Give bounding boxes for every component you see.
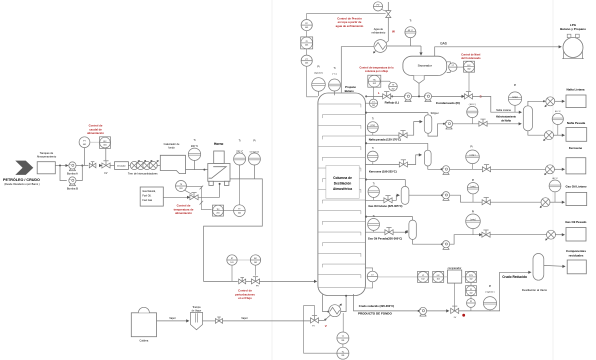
svg-text:Agua de: Agua de — [374, 28, 384, 31]
gauge Ti (C) on column top — [329, 67, 341, 95]
control valve (GOP) — [482, 230, 490, 237]
svg-text:Vapor: Vapor — [241, 317, 248, 320]
svg-text:Control de: Control de — [89, 124, 103, 128]
gauge Pi 0.8 kg/cm2 (furnace outlet) — [248, 140, 260, 179]
gauge Ti (gas oil liviano draw) — [368, 184, 379, 201]
instrument TIC (fondo) — [337, 344, 349, 359]
product box Nafta Pesada — [566, 121, 587, 141]
svg-text:Control de Presión: Control de Presión — [337, 17, 362, 21]
svg-text:(170°): (170°) — [370, 125, 375, 127]
gauge Pi kg/cm2 (crudo reducido) — [483, 285, 496, 311]
control loop label (red): Control de temperatura de alimentacion — [174, 204, 194, 216]
product box Kerosene — [566, 146, 586, 174]
control loop label (red): Control de perturbaciones en el Flujo — [235, 289, 255, 300]
control valve FV (crude feed) — [99, 161, 110, 175]
control valve (kerosene draw) — [399, 160, 407, 167]
wire: stripper3 overhead return — [365, 179, 405, 187]
svg-text:Fuel Gas: Fuel Gas — [142, 199, 153, 202]
svg-text:fondo: fondo — [168, 146, 175, 149]
svg-text:de Nafta: de Nafta — [501, 120, 511, 123]
gauge Pi psig (nafta liviana line) — [508, 84, 521, 112]
svg-text:Hidrotratamiento: Hidrotratamiento — [496, 116, 517, 119]
product box Gas Oil Liviano — [565, 184, 586, 205]
red dot marker — [462, 314, 465, 317]
control valve (GOL draw) — [384, 196, 392, 203]
wire: trap to hand valve — [203, 320, 216, 322]
svg-text:002: 002 — [467, 69, 470, 71]
label Nafta pesada stream — [369, 138, 401, 142]
svg-text:Nafta Pesada: Nafta Pesada — [567, 121, 586, 125]
wire: LT to LY102 — [378, 276, 418, 278]
svg-text:200 °C: 200 °C — [191, 145, 199, 148]
gauge Ti 40C (nafta pesada line) — [467, 104, 478, 124]
wire: stripper4 overhead return — [365, 216, 412, 221]
source arrow PETROLEO/CRUDO (chevron) — [3, 161, 40, 187]
steam valve TV (to reboiler) — [311, 316, 319, 328]
wire: column overhead vapor line — [341, 47, 374, 93]
svg-text:Vapor: Vapor — [169, 317, 176, 320]
wire: kerosene product line — [449, 168, 546, 170]
gauge 40C (GOL product) — [549, 178, 561, 202]
svg-text:Kerosene: Kerosene — [569, 146, 583, 150]
instrument PCV 102 — [462, 271, 477, 282]
column internal trays — [318, 104, 365, 278]
svg-text:Destilación al Vacío: Destilación al Vacío — [522, 288, 548, 292]
gauge Ti 370C (furnace outlet) — [234, 140, 246, 179]
pump (gas oil liviano) — [442, 192, 449, 201]
cooling water valve PV (vertical) — [386, 2, 391, 43]
svg-text:001: 001 — [305, 63, 308, 65]
svg-text:201: 201 — [216, 212, 219, 214]
svg-text:Nafta Liviana: Nafta Liviana — [496, 109, 511, 112]
label Nafta Liviana (stream) — [496, 109, 511, 112]
svg-text:agua de enfriamiento: agua de enfriamiento — [336, 24, 364, 28]
wire: stripper1 overhead return — [365, 112, 439, 115]
svg-text:Gas Oil liviano (225-305°C): Gas Oil liviano (225-305°C) — [368, 204, 402, 208]
gauge 40C (nafta pesada product) — [552, 111, 563, 135]
heat exchanger train (4 shells): Tren de Intercambiadores — [128, 160, 159, 175]
svg-text:Destilación: Destilación — [334, 182, 352, 186]
separator boot — [414, 76, 424, 97]
instrument FT 101 — [227, 255, 237, 282]
svg-text:temperatura de: temperatura de — [174, 207, 194, 211]
svg-text:Control de: Control de — [177, 204, 191, 208]
svg-text:001: 001 — [305, 45, 308, 47]
svg-text:Bomba B: Bomba B — [67, 186, 78, 190]
wire: stripper1 bottoms to pump — [428, 123, 445, 136]
svg-text:102: 102 — [437, 279, 440, 281]
svg-text:Caldera: Caldera — [140, 340, 149, 343]
control loop label (red): Control de caudal de alimentacion — [87, 124, 104, 136]
gauge Ti 200C (furnace inlet) — [188, 139, 200, 170]
svg-text:Butano: Butano — [345, 89, 355, 93]
wire: GOL product line — [449, 195, 541, 202]
separator vessel — [403, 56, 447, 75]
svg-text:Condensado (D): Condensado (D) — [436, 101, 460, 105]
svg-text:Componentes: Componentes — [566, 249, 586, 253]
pump (gas oil pesado) — [442, 241, 449, 250]
svg-text:40 °C: 40 °C — [552, 178, 558, 180]
svg-text:Gas Oil Pesada(320-360°C): Gas Oil Pesada(320-360°C) — [368, 237, 402, 241]
fuel box Gas Natural / Fuel Oil / Fuel Gas — [140, 187, 163, 206]
svg-text:Almacenamiento: Almacenamiento — [37, 154, 57, 158]
reboiler heat exchanger — [329, 304, 342, 317]
vacuum column vessel — [533, 254, 544, 281]
label PRODUCTO DE FONDO — [358, 311, 392, 315]
svg-text:( psig ): ( psig ) — [512, 96, 518, 98]
instrument PI 001 (plc square) — [301, 37, 313, 55]
svg-text:enfriamiento: enfriamiento — [372, 31, 386, 34]
pump (crudo reducido) — [419, 307, 426, 316]
svg-text:comparador: comparador — [448, 266, 462, 270]
svg-text:alimentación: alimentación — [87, 131, 104, 135]
wire: gas oil liviano draw line — [365, 194, 400, 201]
signal wire: PC001 to PV valve — [307, 13, 386, 19]
svg-text:Nafta pesada (120-170°C): Nafta pesada (120-170°C) — [369, 138, 401, 142]
svg-text:( 40°C ): ( 40°C ) — [469, 104, 476, 106]
control loop label (red): Control de Presion en tope — [336, 17, 364, 28]
hand valve on crude line — [89, 162, 96, 168]
column bottom seam line — [318, 287, 366, 289]
wire: fuel line to furnace — [163, 183, 220, 199]
wire: GOP product line — [449, 233, 547, 244]
instrument LY 102 — [418, 271, 429, 282]
gauge Ti (kerosene draw) — [368, 148, 379, 165]
label Destilacion al Vacio — [522, 288, 548, 292]
svg-text:PETRÓLEO / CRUDO: PETRÓLEO / CRUDO — [3, 177, 40, 182]
wire: FV to desalter — [110, 165, 115, 167]
svg-text:de Vapor: de Vapor — [192, 309, 202, 312]
page divider line 1 — [271, 0, 273, 360]
gauge Pi (kg/cm2) on column top — [312, 65, 326, 96]
label V (red) — [325, 324, 327, 328]
wire: reflux line into column — [365, 95, 405, 97]
svg-text:202: 202 — [372, 105, 375, 107]
svg-text:Control de: Control de — [238, 289, 252, 293]
wire: desalter to exchanger train — [128, 165, 130, 167]
svg-text:L: L — [378, 91, 380, 95]
instrument LIC 102 — [429, 271, 444, 282]
svg-text:Desalador: Desalador — [117, 165, 126, 168]
control valve (nafta pesada to HDT) — [479, 119, 487, 126]
svg-text:201: 201 — [179, 188, 182, 190]
stripper 2 vessel (kerosene) — [424, 150, 431, 166]
instrument TV 201 — [176, 181, 193, 195]
svg-text:W: W — [392, 29, 395, 33]
wire: pump B branch — [60, 165, 83, 181]
svg-text:Stripper: Stripper — [431, 112, 439, 115]
wire: stripper2 bottoms to pump — [428, 166, 443, 170]
wire: hydrotreater overhead to cooler — [528, 100, 546, 106]
svg-text:columna por reflujo: columna por reflujo — [365, 70, 389, 73]
boiler Caldera — [131, 307, 156, 342]
svg-text:Propano: Propano — [345, 85, 356, 89]
wire: kerosene draw line — [365, 153, 422, 164]
gauge Pi psig (kerosene line) — [466, 145, 480, 169]
wire: pump to LV valve — [426, 309, 449, 312]
instrument FIC 101 — [237, 255, 261, 276]
label W (red) — [392, 29, 395, 33]
svg-text:( psig ): ( psig ) — [470, 155, 476, 157]
wire: nafta pesada to hydrotreater — [452, 122, 521, 125]
svg-text:residuales: residuales — [569, 253, 584, 257]
instrument LT (separator) — [447, 62, 457, 73]
svg-text:Columna de: Columna de — [333, 176, 352, 180]
product cooler (gas oil pesado) — [545, 230, 565, 240]
svg-text:PRODUCTO DE FONDO: PRODUCTO DE FONDO — [358, 311, 392, 315]
stripper 4 vessel (gas oil pesado) — [409, 220, 416, 239]
wire: condensate to hydrotreater — [473, 96, 523, 113]
wire: stripper4 bottoms to pump — [413, 240, 443, 246]
svg-text:( psig ): ( psig ) — [470, 186, 476, 188]
svg-text:101: 101 — [230, 262, 233, 264]
instrument PI 102 — [466, 282, 477, 295]
control valve D (condensado) — [465, 92, 483, 99]
wire: feed into column — [246, 280, 318, 283]
svg-text:201: 201 — [341, 340, 344, 342]
control valve (reflujo) — [383, 92, 391, 99]
instrument PT 001 — [301, 55, 312, 66]
instrument PC 001 — [301, 20, 312, 37]
label Propano Butano — [345, 85, 357, 93]
svg-text:40 °C: 40 °C — [555, 111, 561, 113]
comparador box — [444, 266, 462, 283]
wire: reboiler to TT — [342, 313, 344, 332]
column name label box — [326, 166, 359, 199]
wire: gas line to LPG — [435, 41, 562, 56]
svg-text:Bomba A: Bomba A — [67, 171, 78, 175]
instrument FIC 001 — [100, 137, 111, 161]
wire: stripper3 outlet to pump — [409, 194, 443, 196]
instrument LIC 002 — [457, 61, 475, 91]
wire: reboiler return to column — [341, 295, 347, 312]
gauge Ti (gas oil pesado draw) — [368, 216, 380, 232]
svg-text:202: 202 — [373, 83, 376, 85]
svg-text:(Desde Oleoducto o por Barco ): (Desde Oleoducto o por Barco ) — [4, 183, 39, 186]
svg-text:45 °C: 45 °C — [408, 30, 414, 32]
wire: train to Calentador — [157, 165, 161, 167]
wire: furnace outlet loop (down to flow control) — [204, 179, 263, 282]
svg-text:Crudo Reducido: Crudo Reducido — [502, 275, 527, 279]
pump Bomba A — [66, 162, 79, 175]
product cooler (kerosene) — [544, 165, 565, 175]
svg-text:101: 101 — [254, 262, 257, 264]
product box Gas Oil Pesado — [565, 220, 586, 241]
svg-text:Crudo reducido (320-360°C): Crudo reducido (320-360°C) — [359, 304, 395, 308]
furnace Horno — [208, 142, 230, 185]
wire: FT001 to FIC001 — [90, 141, 100, 143]
control valve FV 101 — [251, 277, 259, 288]
label L (red) — [378, 91, 380, 95]
instrument TT 201 — [224, 179, 246, 217]
svg-text:( °C ): ( °C ) — [332, 74, 337, 76]
wire: pump A discharge — [76, 165, 89, 167]
label Crudo reducido stream — [359, 304, 395, 308]
product cooler (nafta pesada) — [543, 131, 565, 141]
gauge Ti (nafta pesada draw) — [367, 118, 378, 135]
svg-text:GAS: GAS — [440, 41, 447, 45]
signal wire: comparador to LV valve — [454, 283, 456, 306]
instrument TT 202 — [366, 87, 378, 107]
svg-text:Tren de Intercambiadores: Tren de Intercambiadores — [128, 171, 158, 175]
tank Tanques de Almacenamiento — [37, 151, 57, 174]
svg-text:Kerosene (190-225°C): Kerosene (190-225°C) — [369, 170, 397, 174]
signal wire: TIC to steam valve TV — [304, 306, 337, 354]
svg-text:Fuel Oil,: Fuel Oil, — [142, 195, 151, 198]
product cooler (nafta liviana) — [545, 97, 565, 107]
control valve (GOP draw) — [385, 228, 393, 235]
svg-text:001: 001 — [305, 27, 308, 29]
instrument PI (bottoms line) — [467, 296, 476, 311]
stripper 1 vessel (nafta pesada) — [424, 115, 432, 134]
instrument TT (fondo) — [337, 332, 349, 344]
heater box Calentador de fondo — [160, 143, 185, 174]
wire: tank outlet to pumps — [55, 165, 67, 167]
product box Componentes residuales — [566, 249, 586, 274]
svg-text:Tanques de: Tanques de — [40, 151, 54, 155]
hand valve (steam) — [216, 317, 223, 323]
svg-text:001: 001 — [103, 144, 106, 146]
wire: vacuum to componentes residuales — [544, 265, 566, 268]
wire: Calentador to furnace — [186, 169, 208, 171]
label Kerosene stream — [369, 170, 397, 174]
vessel Desalador — [115, 162, 129, 170]
svg-text:001: 001 — [83, 144, 86, 146]
product box Nafta Liviana — [566, 87, 586, 107]
wire: steam to reboiler — [319, 315, 331, 321]
pump distillate B — [411, 93, 431, 102]
svg-text:V: V — [325, 324, 327, 328]
svg-text:caudal de: caudal de — [89, 127, 102, 131]
wire: reboiler supply from column — [323, 294, 330, 312]
control loop label (red): Control de temperatura de la columna por reflujo — [359, 67, 394, 73]
label Condensado (D) — [436, 101, 460, 105]
svg-text:( kg/cm2 ): ( kg/cm2 ) — [314, 73, 324, 75]
control valve (nafta pesada draw) — [399, 131, 407, 138]
svg-text:Gas Oil Pesado: Gas Oil Pesado — [565, 220, 586, 224]
control loop label (red): Control de Nivel del Condensado — [461, 53, 481, 59]
pump (kerosene) — [442, 166, 449, 175]
control valve (GOL) — [482, 198, 490, 205]
svg-text:perturbaciones: perturbaciones — [235, 292, 255, 296]
label Agua de enfriamiento — [372, 28, 386, 35]
signal wire: TIC201 to TV201 (with // marks) — [187, 186, 212, 210]
control valve on fuel line — [190, 193, 198, 200]
stripper 3 vessel (gas oil liviano) — [401, 186, 409, 204]
column Columna de Destilacion Atmosferica (shell) — [318, 93, 366, 296]
svg-text:Butano y Propano: Butano y Propano — [560, 27, 586, 31]
wire: column bottoms product line — [354, 294, 420, 312]
svg-text:201: 201 — [238, 213, 241, 215]
svg-text:Nafta Liviana: Nafta Liviana — [567, 87, 585, 91]
level standpipe on column — [365, 268, 372, 288]
svg-text:alimentación: alimentación — [175, 211, 192, 215]
svg-text:102: 102 — [470, 279, 473, 281]
wire: hydrotreater bottoms to cooler — [528, 131, 545, 135]
svg-text:del Condensado: del Condensado — [461, 57, 481, 60]
svg-text:FV: FV — [105, 173, 108, 175]
svg-text:en el Flujo: en el Flujo — [238, 296, 252, 300]
instrument TV 202 — [389, 82, 398, 91]
LPG sphere Butano y Propano — [560, 23, 586, 59]
svg-text:Gas Oil Liviano: Gas Oil Liviano — [565, 184, 586, 188]
gauge Ti 45C (overhead) — [405, 19, 416, 46]
instrument FT 001 — [79, 137, 90, 166]
label Gas Oil Pesada stream — [368, 237, 402, 241]
svg-text:en tope a partir de: en tope a partir de — [338, 20, 362, 24]
svg-text:Horno: Horno — [214, 142, 223, 146]
pump Bomba B — [67, 177, 78, 190]
hydrotreater vessel Hidrotratamiento de Nafta — [496, 106, 533, 131]
svg-text:102: 102 — [470, 293, 473, 295]
overhead condenser (agua de enfriamiento exchanger) — [373, 40, 387, 54]
wire: column top pressure tap — [307, 66, 318, 97]
wire: steam line to TV valve — [223, 317, 311, 321]
instrument LT (column bottom) — [367, 271, 378, 282]
svg-text:Reflujo (L): Reflujo (L) — [385, 100, 399, 104]
page divider line 2 — [552, 0, 554, 360]
svg-text:202: 202 — [392, 89, 395, 91]
gauge Pi (GOL line) — [467, 179, 478, 202]
control valve (kerosene) — [482, 165, 490, 172]
wire: condensate to D valve — [431, 95, 464, 98]
svg-text:102: 102 — [421, 279, 424, 281]
svg-text:Gas Natural,: Gas Natural, — [142, 190, 156, 193]
wire: condenser to separator — [387, 46, 423, 56]
svg-text:( kg/cm2 ): ( kg/cm2 ) — [486, 292, 495, 294]
svg-text:201: 201 — [341, 355, 344, 357]
wire: crudo reducido to vacuum unit — [459, 271, 532, 311]
pump (nafta pesada) — [445, 120, 452, 129]
svg-text:Atmosférica: Atmosférica — [333, 187, 352, 191]
wire: nafta pesada draw line — [365, 120, 422, 135]
gauge Pi (GOP line) — [466, 210, 481, 234]
steam trap Trampa de Vapor — [191, 306, 203, 330]
label Crudo Reducido — [502, 275, 527, 279]
instrument TIC 202 — [368, 75, 391, 87]
svg-text:( psig ): ( psig ) — [470, 219, 476, 221]
wire: stripper2 overhead return — [365, 142, 428, 150]
svg-text:Separador: Separador — [418, 64, 432, 68]
control valve LV — [451, 306, 459, 319]
wire: boiler steam line — [157, 317, 190, 323]
pump distillate A — [404, 93, 411, 102]
wire: gas oil pesado draw line — [365, 230, 408, 234]
instrument TIC 201 — [213, 205, 224, 216]
product cooler (gas oil liviano) — [540, 198, 565, 208]
label Gas Oil liviano stream — [368, 204, 402, 208]
hand valve (feed to column) — [239, 278, 246, 284]
instrument PV — [373, 2, 386, 12]
label Reflujo (L) — [385, 100, 399, 104]
